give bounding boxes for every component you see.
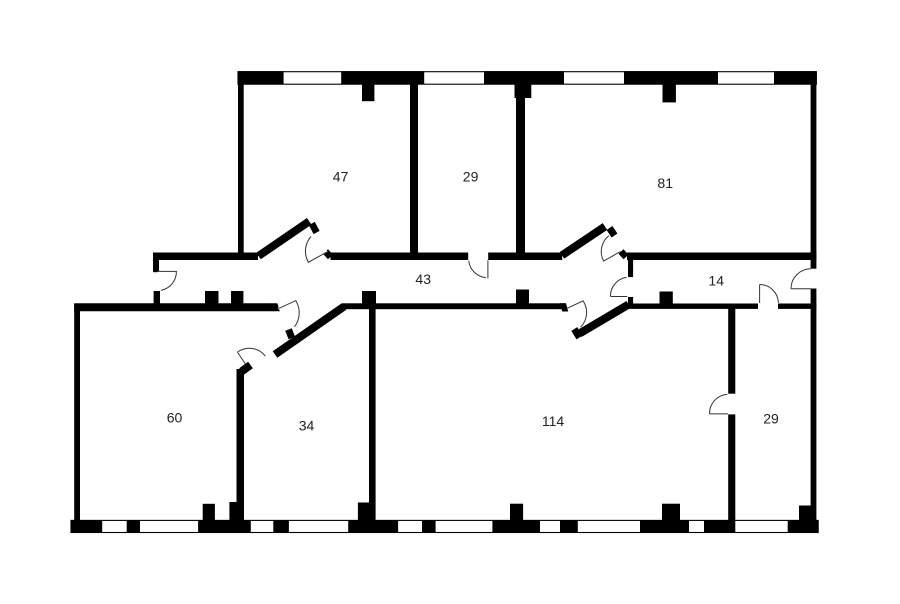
divider wall rooms 47/29 [410, 80, 418, 256]
bottom wall pier 4 [273, 520, 289, 532]
svg-text:60: 60 [167, 409, 183, 425]
duct pier on bottom wall below room 114 right [662, 504, 680, 522]
corridor bottom wall right end slant cap [560, 303, 568, 311]
svg-text:43: 43 [415, 271, 431, 287]
door arc room 14 entry [610, 277, 627, 296]
bottom wall pier 9 [640, 520, 689, 532]
bottom wall pier 1 [71, 520, 102, 532]
cap at top end of room 81 diagonal [610, 228, 615, 236]
bottom wall pier 8 [560, 520, 578, 532]
svg-text:29: 29 [463, 168, 479, 184]
duct stub A above corridor bottom wall [205, 291, 219, 304]
divider wall rooms 114/29 upper [728, 306, 735, 394]
bottom wall pier 7 [492, 520, 540, 532]
stub connecting diagonal to room 14 wall [621, 252, 626, 257]
room 14 bottom wall right segment [778, 304, 816, 309]
left exterior wall of room 47 [238, 79, 244, 256]
cap at top of 29/81 divider [515, 84, 532, 98]
corridor top wall left segment [153, 253, 258, 261]
door arc at room 114 diagonal [567, 301, 587, 327]
door arc room 29 top [469, 260, 488, 278]
room 14 bottom wall left segment [627, 304, 758, 309]
stub on room 34 diagonal [289, 330, 292, 339]
top wall pier 1 [238, 71, 284, 84]
duct pier right at bottom of room 60 [229, 502, 241, 521]
diagonal wall upper segment at room 34 chamfer [275, 307, 344, 355]
door arc at room 81 chamfer [601, 236, 620, 262]
corridor bottom wall left end slant cap [271, 303, 280, 311]
stub connecting diagonal to corridor wall (47 side) [326, 252, 331, 257]
diagonal wall at room 47 chamfer [259, 221, 310, 256]
duct stub C above corridor bottom wall [516, 290, 529, 304]
svg-text:29: 29 [763, 410, 779, 426]
door arc room 14 bottom [760, 285, 779, 304]
door arc balcony right wall [791, 269, 811, 289]
door arc at room 47 chamfer [305, 237, 327, 263]
duct pier left at bottom of room 60 [203, 504, 215, 521]
top wall pier 4 [624, 71, 718, 84]
corridor bottom wall right segment [342, 303, 566, 309]
divider wall rooms 114/29 lower [728, 414, 735, 521]
right exterior wall lower segment [811, 289, 817, 506]
divider wall rooms 34/114 [369, 304, 376, 521]
divider wall rooms 29/81 [516, 84, 525, 260]
pier stub below top wall in room 47 [362, 84, 374, 101]
svg-text:114: 114 [542, 413, 565, 429]
pier stub below top wall in room 81 [663, 84, 676, 102]
bottom exterior wall window band [71, 520, 818, 532]
top exterior wall window band [238, 72, 816, 85]
corridor bottom wall left segment [74, 303, 274, 311]
cap at lower end of room 114 diagonal [574, 329, 579, 338]
top wall pier 3 [484, 71, 564, 84]
stub of divider 34/114 above corridor wall [362, 291, 376, 304]
bottom wall pier 5 [348, 520, 398, 532]
right exterior wall upper segment [811, 79, 817, 269]
bottom wall pier 6 [422, 520, 436, 532]
right exterior wall bottom pier [799, 506, 816, 522]
bottom wall pier 2 [127, 520, 140, 532]
svg-text:34: 34 [299, 417, 315, 433]
svg-text:81: 81 [657, 175, 673, 191]
room 14 left wall lower piece [628, 297, 633, 305]
diagonal wall at room 114 top-right [580, 305, 629, 334]
svg-text:47: 47 [333, 168, 349, 184]
pier at bottom of divider 34/114 [358, 503, 369, 521]
bottom wall pier 3 [198, 520, 251, 532]
door arc room 29 bottom [709, 394, 728, 414]
diagonal wall lower segment at room 34 chamfer [242, 365, 251, 372]
door arc at corridor left entry [158, 271, 177, 290]
divider wall rooms 60/34 [237, 369, 245, 521]
corridor top wall middle segment [331, 253, 469, 261]
diagonal wall at room 81 chamfer [562, 227, 605, 256]
duct stub B above corridor bottom wall [231, 291, 243, 304]
duct pier on bottom wall below room 114 [510, 504, 523, 522]
room 14 top wall [627, 253, 816, 261]
svg-text:14: 14 [708, 272, 724, 288]
duct stub in room 14 above its bottom wall [660, 292, 673, 305]
bottom wall pier 10 [704, 520, 735, 532]
top wall pier 2 [341, 71, 424, 84]
door arc at room 34 chamfer upper [278, 301, 300, 327]
door arc at room 34 chamfer lower [238, 348, 266, 368]
corridor top wall right segment [488, 253, 562, 261]
lower stub of corridor entry doorway [154, 291, 160, 304]
bottom wall pier 11 [788, 520, 819, 532]
corridor entry door stub [153, 253, 159, 273]
left exterior wall of room 60 [74, 304, 80, 526]
room 14 left wall upper piece [628, 258, 633, 277]
top wall pier 5 [774, 71, 816, 84]
cap at top end of room 47 diagonal [312, 224, 317, 233]
